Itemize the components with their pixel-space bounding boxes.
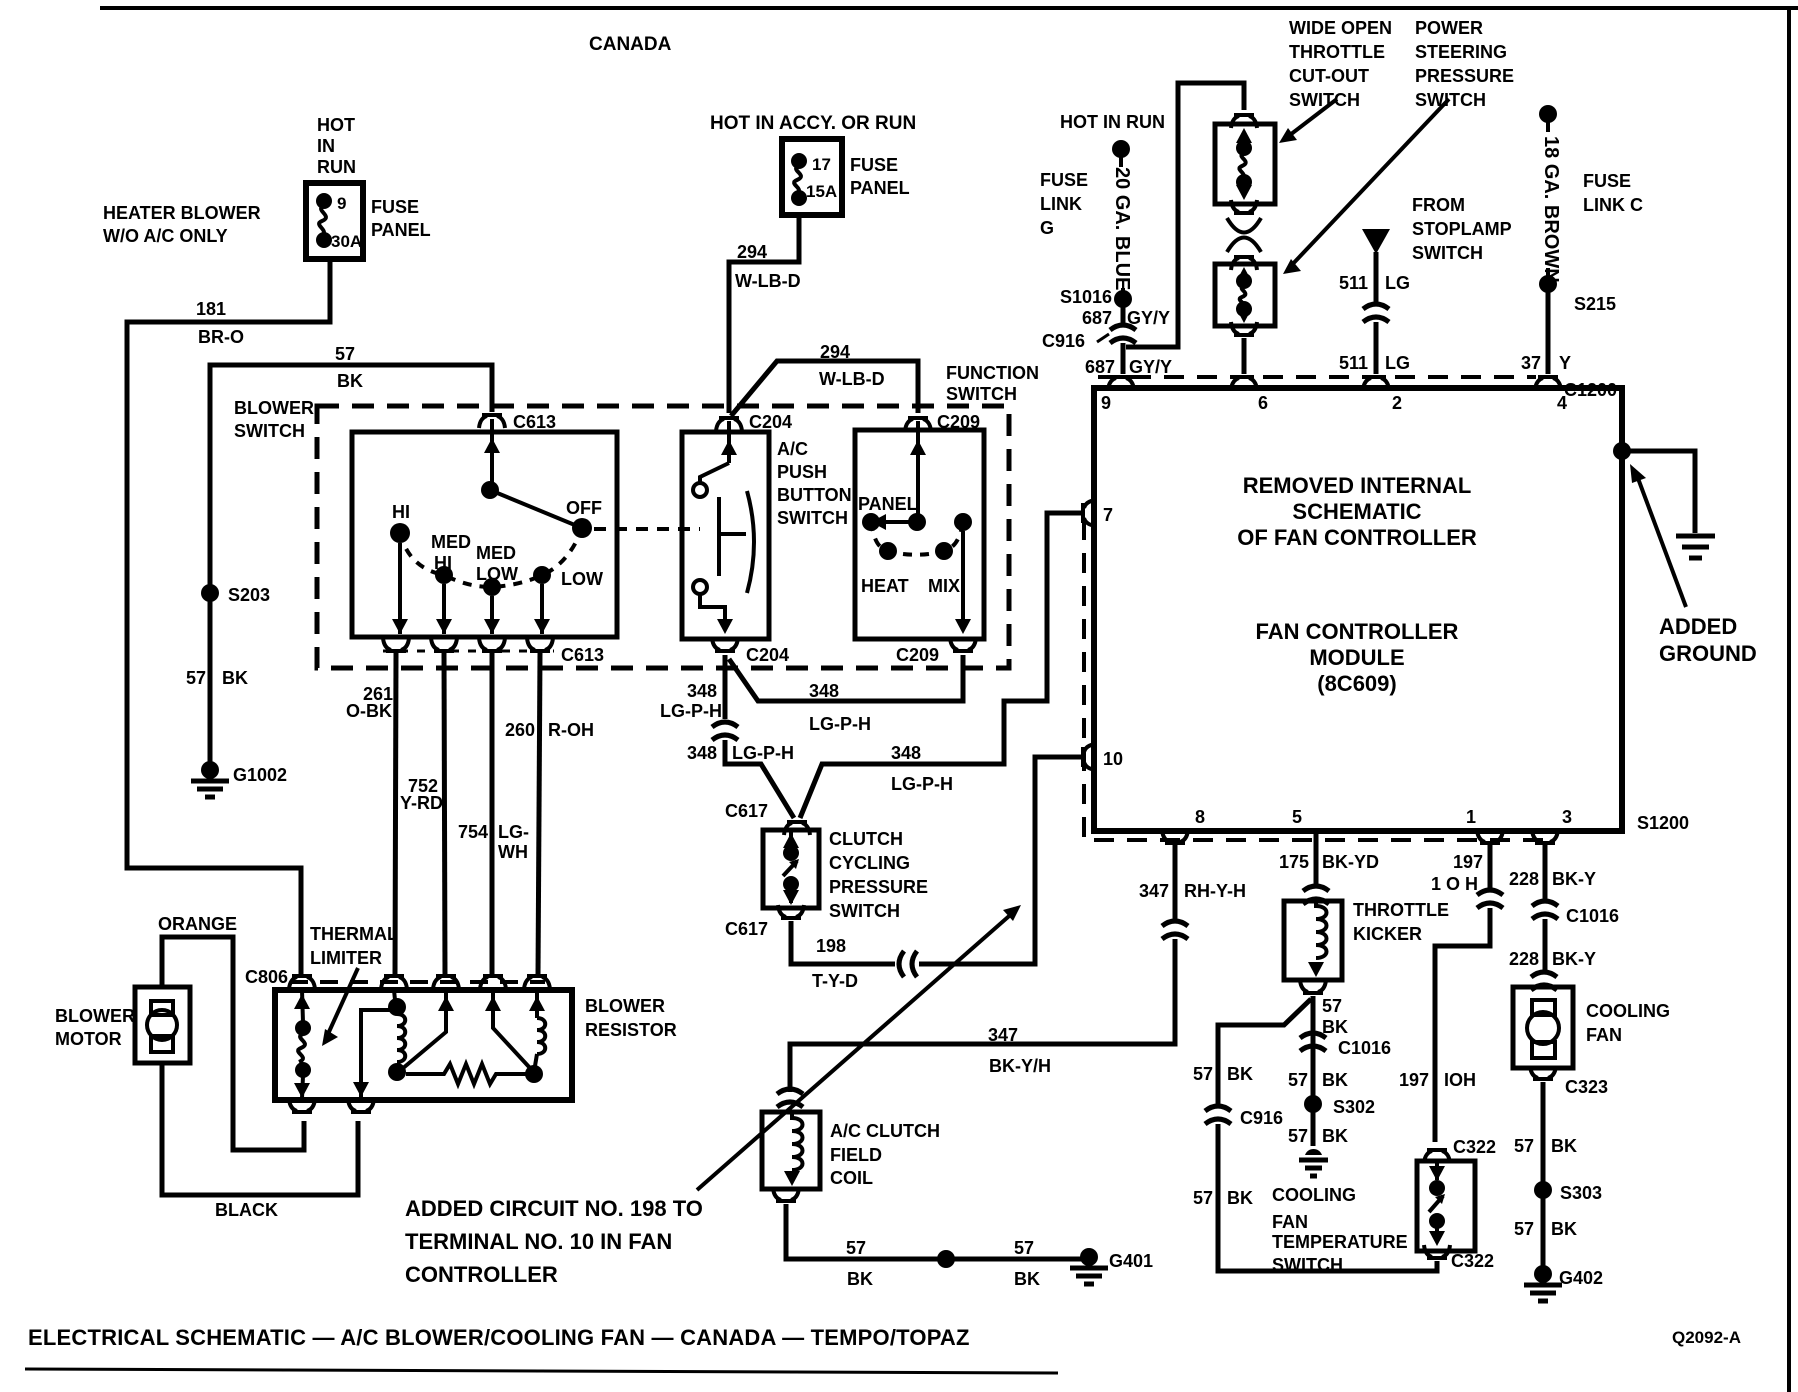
svg-text:687: 687 <box>1082 308 1112 328</box>
svg-text:SWITCH: SWITCH <box>1415 90 1486 110</box>
inline connector on 198 <box>899 951 917 977</box>
wire 260 R-OH <box>538 653 540 976</box>
cooling fan temperature switch box <box>1417 1161 1475 1251</box>
svg-text:ADDED: ADDED <box>1659 614 1737 639</box>
svg-text:STOPLAMP: STOPLAMP <box>1412 219 1512 239</box>
svg-text:BK-Y: BK-Y <box>1552 869 1596 889</box>
svg-text:TEMPERATURE: TEMPERATURE <box>1272 1232 1408 1252</box>
svg-text:BK-Y/H: BK-Y/H <box>989 1056 1051 1076</box>
svg-text:C209: C209 <box>896 645 939 665</box>
svg-text:BLOWER: BLOWER <box>585 996 665 1016</box>
connector C1200 pin 4 <box>1535 377 1561 390</box>
wire 348 below connector <box>725 740 794 818</box>
stoplamp feed triangle <box>1362 229 1390 254</box>
svg-text:BK: BK <box>1322 1017 1348 1037</box>
svg-text:MOTOR: MOTOR <box>55 1029 122 1049</box>
svg-text:BK: BK <box>1551 1219 1577 1239</box>
page right border <box>1787 8 1791 1392</box>
svg-text:SWITCH: SWITCH <box>777 508 848 528</box>
svg-text:O-BK: O-BK <box>346 701 392 721</box>
svg-text:511: 511 <box>1339 353 1368 373</box>
wire 347 RH-Y-H <box>1173 845 1178 920</box>
splice S203 <box>201 584 219 602</box>
svg-text:HEAT: HEAT <box>861 576 909 596</box>
cooling fan motor box <box>1513 987 1573 1068</box>
svg-text:(8C609): (8C609) <box>1317 671 1396 696</box>
splice S215 <box>1539 275 1557 293</box>
wire PS to pin 6 <box>1242 338 1247 374</box>
wire 228 BK-Y to cooling fan <box>1543 919 1548 974</box>
svg-text:GY/Y: GY/Y <box>1127 308 1170 328</box>
connector S1200 pin 8 <box>1162 830 1188 843</box>
ground symbol (added ground) <box>1676 536 1715 558</box>
svg-text:228: 228 <box>1509 869 1539 889</box>
svg-text:PANEL: PANEL <box>850 178 910 198</box>
svg-text:LG-P-H: LG-P-H <box>809 714 871 734</box>
svg-text:198: 198 <box>816 936 846 956</box>
fuse 17 15A (fuse panel) <box>782 139 842 215</box>
svg-text:A/C: A/C <box>777 439 808 459</box>
wire LOW to C613 <box>540 584 544 634</box>
svg-text:BUTTON: BUTTON <box>777 485 852 505</box>
wire 57 BK to C322 <box>1218 1124 1437 1271</box>
wire 348 LG-P-H from C204 <box>723 655 728 719</box>
fuse link 18 GA. BROWN <box>1546 120 1550 132</box>
svg-text:SWITCH: SWITCH <box>1412 243 1483 263</box>
svg-text:IN: IN <box>317 136 335 156</box>
svg-text:C916: C916 <box>1240 1108 1283 1128</box>
fuse link G terminal node <box>1112 140 1130 158</box>
svg-text:BK: BK <box>1322 1070 1348 1090</box>
resistor coil 2 <box>535 992 539 1018</box>
resistor node C <box>525 1065 543 1083</box>
svg-text:754: 754 <box>458 822 488 842</box>
wire 752 Y-RD <box>444 653 445 976</box>
WOT switch internals <box>1236 128 1252 200</box>
svg-text:CANADA: CANADA <box>589 34 672 55</box>
svg-text:7: 7 <box>1103 505 1113 525</box>
svg-text:CYCLING: CYCLING <box>829 853 910 873</box>
splice S1016 <box>1114 290 1132 308</box>
svg-text:57: 57 <box>186 668 206 688</box>
wire 228 BK-Y from pin 3 <box>1543 845 1548 900</box>
thermal limiter pointer arrow <box>328 968 358 1034</box>
ground G401 <box>1070 1248 1108 1284</box>
svg-text:57: 57 <box>1514 1219 1534 1239</box>
svg-text:BK: BK <box>1551 1136 1577 1156</box>
resistor wire MED-LO tap <box>402 992 446 1069</box>
svg-text:347: 347 <box>1139 881 1169 901</box>
svg-text:MODULE: MODULE <box>1309 645 1404 670</box>
inline connector C1016 (pin3) <box>1532 901 1558 919</box>
clutch cycling switch internals <box>783 828 799 905</box>
connector (WOT bottom) <box>1231 200 1257 213</box>
connector C322 (bottom) <box>1424 1245 1450 1258</box>
svg-text:C1016: C1016 <box>1338 1038 1391 1058</box>
wire GY/Y loop to WOT switch <box>1126 83 1244 347</box>
selector dashed arc <box>400 528 582 587</box>
svg-text:511: 511 <box>1339 273 1368 293</box>
svg-text:175: 175 <box>1279 852 1309 872</box>
svg-text:20 GA. BLUE: 20 GA. BLUE <box>1111 167 1133 290</box>
A/C push button switch box <box>682 432 769 639</box>
svg-text:BK: BK <box>1322 1126 1348 1146</box>
svg-text:57: 57 <box>1014 1238 1034 1258</box>
svg-text:LG: LG <box>1385 353 1410 373</box>
svg-text:CONTROLLER: CONTROLLER <box>405 1262 558 1287</box>
wire 294 W-LB-D branch to C209 <box>731 361 918 416</box>
svg-text:C916: C916 <box>1042 331 1085 351</box>
svg-text:PANEL: PANEL <box>371 220 431 240</box>
node OFF <box>572 518 592 538</box>
svg-text:260: 260 <box>505 720 535 740</box>
svg-text:A/C CLUTCH: A/C CLUTCH <box>830 1121 940 1141</box>
svg-text:15A: 15A <box>806 182 837 201</box>
inline connector on 197 <box>1477 890 1503 908</box>
svg-text:57: 57 <box>335 344 355 364</box>
A/C clutch field coil box <box>762 1112 820 1189</box>
svg-text:37: 37 <box>1521 353 1541 373</box>
wire C613 to rotor <box>490 419 494 490</box>
svg-text:C204: C204 <box>746 645 789 665</box>
resistor node A <box>388 998 406 1016</box>
connector C322 (top) <box>1424 1150 1450 1163</box>
pin 7 bracket <box>1083 500 1096 526</box>
wire 57 BK to G402 <box>1541 1082 1546 1266</box>
thermal limiter element <box>294 990 311 1098</box>
splice S303 <box>1534 1181 1552 1199</box>
page top border <box>100 6 1798 10</box>
node HI <box>390 523 410 543</box>
connector C613 (top) <box>479 415 505 428</box>
fuse link 20 GA. BLUE <box>1119 155 1123 167</box>
svg-text:LINK: LINK <box>1040 194 1082 214</box>
svg-text:TERMINAL NO. 10 IN FAN: TERMINAL NO. 10 IN FAN <box>405 1229 672 1254</box>
wire 347 BK-Y/H to A/C clutch coil <box>790 939 1175 1092</box>
svg-text:S302: S302 <box>1333 1097 1375 1117</box>
svg-text:HOT IN RUN: HOT IN RUN <box>1060 112 1165 132</box>
connector C617 (bottom) <box>778 905 804 918</box>
svg-text:1: 1 <box>1466 807 1476 827</box>
svg-text:181: 181 <box>196 299 226 319</box>
dashed switch assembly box <box>317 406 1009 668</box>
wire 175 BK-YD from pin 5 <box>1314 831 1319 888</box>
svg-text:18 GA. BROWN: 18 GA. BROWN <box>1540 136 1562 283</box>
svg-text:C806: C806 <box>245 967 288 987</box>
svg-text:HOT: HOT <box>317 115 355 135</box>
svg-text:OF FAN CONTROLLER: OF FAN CONTROLLER <box>1237 525 1477 550</box>
connector S1200 pin 1 <box>1477 830 1503 843</box>
svg-text:OFF: OFF <box>566 498 602 518</box>
svg-text:57: 57 <box>1322 996 1342 1016</box>
svg-text:PUSH: PUSH <box>777 462 827 482</box>
A/C switch internals <box>693 421 754 634</box>
added ground wire <box>1622 451 1695 533</box>
svg-text:HI: HI <box>434 553 452 573</box>
svg-text:LG-P-H: LG-P-H <box>732 743 794 763</box>
svg-text:C204: C204 <box>749 412 792 432</box>
svg-text:57: 57 <box>1514 1136 1534 1156</box>
svg-text:T-Y-D: T-Y-D <box>812 971 858 991</box>
svg-text:BK: BK <box>337 371 363 391</box>
rotor pivot node <box>481 481 499 499</box>
svg-text:FUSE: FUSE <box>1583 171 1631 191</box>
svg-text:RUN: RUN <box>317 157 356 177</box>
svg-text:C323: C323 <box>1565 1077 1608 1097</box>
rotor arm to OFF <box>490 490 582 528</box>
connector C1200 pin 9 <box>1108 377 1134 390</box>
power steering pressure switch box <box>1215 264 1275 326</box>
svg-text:G401: G401 <box>1109 1251 1153 1271</box>
svg-text:HEATER BLOWER: HEATER BLOWER <box>103 203 261 223</box>
svg-text:348: 348 <box>809 681 839 701</box>
svg-text:SCHEMATIC: SCHEMATIC <box>1292 499 1421 524</box>
wire 57 BK to G401 <box>786 1204 1085 1259</box>
svg-text:C322: C322 <box>1451 1251 1494 1271</box>
wire 511 LG to pin 2 <box>1374 322 1379 374</box>
wire 348 LG-P-H from C209 <box>729 655 963 701</box>
svg-text:17: 17 <box>812 155 831 174</box>
svg-text:W-LB-D: W-LB-D <box>735 271 801 291</box>
svg-text:197: 197 <box>1399 1070 1429 1090</box>
svg-text:348: 348 <box>687 681 717 701</box>
svg-text:FUSE: FUSE <box>1040 170 1088 190</box>
svg-text:348: 348 <box>891 743 921 763</box>
inline connector C1016 <box>1300 1033 1326 1051</box>
wire BLACK <box>162 1063 358 1195</box>
connector C323 (bottom) <box>1530 1066 1556 1079</box>
svg-text:C613: C613 <box>561 645 604 665</box>
wire 754 LG-WH <box>490 653 495 976</box>
svg-text:LOW: LOW <box>561 569 603 589</box>
resistor zigzag <box>406 1064 526 1084</box>
wire HI to C613 <box>398 543 402 634</box>
connector C617 (top) <box>784 822 810 835</box>
svg-text:9: 9 <box>1101 393 1111 413</box>
added circuit pointer arrow <box>697 910 1016 1190</box>
wire MED LOW to C613 <box>490 596 494 634</box>
svg-text:BK: BK <box>1227 1064 1253 1084</box>
svg-text:MED: MED <box>431 532 471 552</box>
svg-text:BLOWER: BLOWER <box>234 398 314 418</box>
svg-text:57: 57 <box>1193 1064 1213 1084</box>
wire 198 to module pin 10 <box>919 757 1081 964</box>
svg-text:BLACK: BLACK <box>215 1200 278 1220</box>
svg-text:SWITCH: SWITCH <box>946 384 1017 404</box>
svg-text:THROTTLE: THROTTLE <box>1353 900 1449 920</box>
WOT cut-out switch box <box>1215 124 1275 204</box>
mating connectors between switches <box>1227 218 1261 252</box>
svg-text:C1016: C1016 <box>1566 906 1619 926</box>
svg-text:THERMAL: THERMAL <box>310 924 398 944</box>
arrow up into C613 <box>484 438 500 453</box>
svg-text:BK-YD: BK-YD <box>1322 852 1379 872</box>
throttle kicker box <box>1284 901 1342 980</box>
svg-text:LG-P-H: LG-P-H <box>891 774 953 794</box>
svg-text:GY/Y: GY/Y <box>1129 357 1172 377</box>
connector C1200 pin 6 <box>1231 377 1257 390</box>
connector C1200 pin 2 <box>1363 377 1389 390</box>
wire 348 LG-P-H to module pin 7 <box>800 513 1081 818</box>
svg-text:5: 5 <box>1292 807 1302 827</box>
svg-text:Y-RD: Y-RD <box>400 793 443 813</box>
svg-text:228: 228 <box>1509 949 1539 969</box>
svg-text:REMOVED INTERNAL: REMOVED INTERNAL <box>1243 473 1472 498</box>
svg-text:PANEL: PANEL <box>858 494 918 514</box>
svg-text:COIL: COIL <box>830 1168 873 1188</box>
svg-text:C617: C617 <box>725 801 768 821</box>
connector dashed outline pins 7/10/bottom <box>1084 520 1543 840</box>
svg-text:Q2092-A: Q2092-A <box>1672 1328 1741 1347</box>
svg-text:57: 57 <box>846 1238 866 1258</box>
wire 57 BK branch to cooling fan temp switch <box>1218 999 1311 1106</box>
connector S1200 pin 3 <box>1532 830 1558 843</box>
svg-text:GROUND: GROUND <box>1659 641 1757 666</box>
node MED HI <box>435 566 453 584</box>
svg-text:RH-Y-H: RH-Y-H <box>1184 881 1246 901</box>
svg-text:LINK C: LINK C <box>1583 195 1643 215</box>
svg-text:SWITCH: SWITCH <box>829 901 900 921</box>
connector (throttle kicker bottom) <box>1300 980 1326 993</box>
wire 687 GY/Y below C916 to pin 9 <box>1121 343 1126 374</box>
svg-text:S215: S215 <box>1574 294 1616 314</box>
svg-text:BR-O: BR-O <box>198 327 244 347</box>
connector C806 dashed row <box>290 980 545 984</box>
svg-text:57: 57 <box>1288 1126 1308 1146</box>
inline connector on 511 <box>1363 304 1389 322</box>
svg-text:10: 10 <box>1103 749 1123 769</box>
svg-text:ADDED CIRCUIT NO. 198 TO: ADDED CIRCUIT NO. 198 TO <box>405 1196 703 1221</box>
connector (PS top) <box>1231 257 1257 270</box>
svg-text:687: 687 <box>1085 357 1115 377</box>
wire 294 W-LB-D to C204 <box>729 215 799 413</box>
blower motor <box>135 987 190 1063</box>
clutch cycling pressure switch box <box>763 830 819 908</box>
inline connector on 348 <box>712 722 738 740</box>
PS pointer arrow <box>1288 99 1449 269</box>
inline connector on 347 <box>1162 921 1188 939</box>
connector (PS bottom) <box>1231 322 1257 335</box>
svg-text:FAN: FAN <box>1272 1212 1308 1232</box>
wire 687 GY/Y <box>1121 305 1126 324</box>
svg-text:294: 294 <box>737 242 767 262</box>
ground G402 <box>1524 1265 1562 1301</box>
svg-text:FROM: FROM <box>1412 195 1465 215</box>
svg-text:FUNCTION: FUNCTION <box>946 363 1039 383</box>
WOT pointer arrow <box>1286 99 1337 138</box>
svg-text:COOLING: COOLING <box>1586 1001 1670 1021</box>
svg-text:348: 348 <box>687 743 717 763</box>
svg-text:S303: S303 <box>1560 1183 1602 1203</box>
connector (WOT top) <box>1231 115 1257 128</box>
resistor wire MED-HI tap <box>493 992 530 1068</box>
svg-text:BK: BK <box>222 668 248 688</box>
svg-text:BLOWER: BLOWER <box>55 1006 135 1026</box>
svg-text:MED: MED <box>476 543 516 563</box>
inline connector C916 (bottom) <box>1205 1106 1231 1124</box>
connector C613 (bottom row) <box>383 638 409 651</box>
inline connector C916 (top) <box>1110 325 1136 343</box>
svg-text:SWITCH: SWITCH <box>1272 1255 1343 1275</box>
svg-text:30A: 30A <box>331 232 362 251</box>
wire 181 BR-O from fuse to blower resistor C806 <box>127 259 330 977</box>
svg-text:CUT-OUT: CUT-OUT <box>1289 66 1369 86</box>
blower resistor box <box>275 990 572 1100</box>
resistor node B <box>388 1063 406 1081</box>
connector C806 cups (top) <box>289 976 315 989</box>
throttle kicker connector (top) <box>1303 886 1329 904</box>
svg-text:G402: G402 <box>1559 1268 1603 1288</box>
ground G1002 <box>191 761 229 797</box>
svg-text:Y: Y <box>1559 353 1571 373</box>
svg-text:FIELD: FIELD <box>830 1145 882 1165</box>
fan controller module box <box>1094 388 1622 831</box>
svg-text:PRESSURE: PRESSURE <box>829 877 928 897</box>
wire MED HI to C613 <box>442 584 446 634</box>
svg-text:CLUTCH: CLUTCH <box>829 829 903 849</box>
connector dashed line C1200 row <box>1098 375 1536 379</box>
wire 57 BK from blower switch to ground <box>210 365 492 764</box>
module ground node <box>1613 442 1631 460</box>
cooling fan connector (top) <box>1531 972 1557 990</box>
svg-text:BK-Y: BK-Y <box>1552 949 1596 969</box>
svg-text:COOLING: COOLING <box>1272 1185 1356 1205</box>
dashed link OFF to A/C switch <box>594 527 700 531</box>
svg-text:197: 197 <box>1453 852 1483 872</box>
wire 197 1OH from pin 1 <box>1488 845 1493 890</box>
svg-text:RESISTOR: RESISTOR <box>585 1020 677 1040</box>
svg-text:LG: LG <box>1385 273 1410 293</box>
svg-text:C322: C322 <box>1453 1137 1496 1157</box>
svg-text:MIX: MIX <box>928 576 960 596</box>
connector C806 cups (bottom) <box>289 1099 315 1112</box>
ground S302 <box>1305 1149 1322 1155</box>
svg-text:R-OH: R-OH <box>548 720 594 740</box>
fuse link C terminal node <box>1539 105 1557 123</box>
svg-text:STEERING: STEERING <box>1415 42 1507 62</box>
svg-text:WH: WH <box>498 842 528 862</box>
splice node <box>937 1250 955 1268</box>
wire ORANGE <box>162 937 304 1150</box>
svg-text:1 O H: 1 O H <box>1431 874 1478 894</box>
svg-text:IOH: IOH <box>1444 1070 1476 1090</box>
PS switch internals <box>1236 267 1252 323</box>
svg-text:C1200: C1200 <box>1564 380 1617 400</box>
wire 511 LG <box>1374 252 1379 303</box>
svg-text:S1016: S1016 <box>1060 287 1112 307</box>
svg-text:S203: S203 <box>228 585 270 605</box>
svg-text:PRESSURE: PRESSURE <box>1415 66 1514 86</box>
svg-text:ELECTRICAL SCHEMATIC — A/C BLO: ELECTRICAL SCHEMATIC — A/C BLOWER/COOLIN… <box>28 1325 970 1350</box>
wire 197 IOH to C322 <box>1435 908 1490 1142</box>
connector (coil bottom) <box>773 1188 799 1201</box>
svg-text:FAN: FAN <box>1586 1025 1622 1045</box>
svg-text:WIDE OPEN: WIDE OPEN <box>1289 18 1392 38</box>
resistor feed from C806-2 <box>361 1010 390 1100</box>
svg-text:SWITCH: SWITCH <box>234 421 305 441</box>
svg-text:LOW: LOW <box>476 564 518 584</box>
svg-text:G: G <box>1040 218 1054 238</box>
connector C209 (top) <box>905 418 931 431</box>
svg-text:C617: C617 <box>725 919 768 939</box>
svg-text:W-LB-D: W-LB-D <box>819 369 885 389</box>
wire 261 O-BK <box>395 653 396 976</box>
connector C204 (top) <box>716 418 742 431</box>
svg-text:FAN CONTROLLER: FAN CONTROLLER <box>1256 619 1459 644</box>
node LOW <box>533 566 551 584</box>
connector C209 (bottom) <box>950 638 976 651</box>
connector C204 (bottom) <box>712 638 738 651</box>
